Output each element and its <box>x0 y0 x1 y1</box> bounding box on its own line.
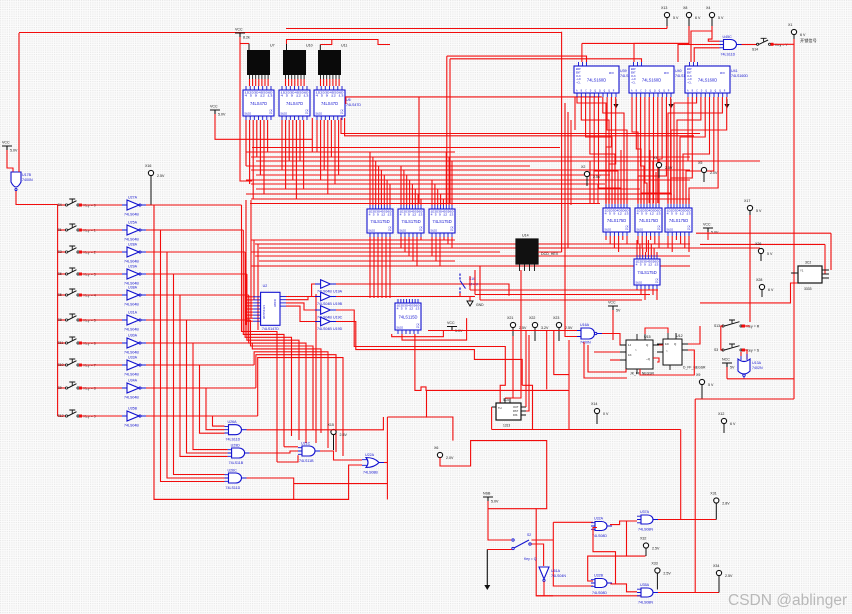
wire right bus y244 <box>700 243 825 245</box>
counter U41 pin labels <box>687 68 726 93</box>
wire bus to S10 <box>58 364 66 366</box>
svg-text:2.8V: 2.8V <box>722 502 730 506</box>
svg-text:U11: U11 <box>341 44 347 48</box>
svg-text:U28A: U28A <box>128 243 138 247</box>
wire U31 output vertical <box>648 289 650 290</box>
svg-text:U40: U40 <box>675 69 682 73</box>
svg-text:X34: X34 <box>713 564 719 568</box>
wire U13A in stub <box>740 352 742 356</box>
decoder U4 74LS47D <box>279 86 310 120</box>
probe X26 <box>755 242 773 261</box>
wire bus left vertical c <box>570 120 572 205</box>
svg-text:CK: CK <box>305 109 309 112</box>
wire bus B3 horizontal <box>255 243 690 245</box>
register U20 74LS175D <box>367 205 393 237</box>
wire display bracket step <box>320 40 332 45</box>
svg-text:U19A: U19A <box>333 289 343 293</box>
inverter U33A <box>122 356 146 377</box>
wire decoder output vertical <box>259 120 261 175</box>
wire U19B output <box>336 296 475 298</box>
svg-text:2.5V: 2.5V <box>593 175 601 179</box>
wire decoder output vertical <box>299 120 301 161</box>
svg-text:74LS11B: 74LS11B <box>229 461 244 465</box>
inverter U31A <box>122 311 146 332</box>
inverter U38A <box>122 286 146 307</box>
wire register Q to bus B3 <box>408 237 410 256</box>
svg-text:U26C: U26C <box>228 469 238 473</box>
power VCC right registers <box>703 223 719 235</box>
wire filler vertical b <box>593 170 595 203</box>
svg-text:4 5 9 12 13: 4 5 9 12 13 <box>369 214 393 217</box>
wire U15 Q to U12 D <box>659 344 663 346</box>
wire U10 top pin <box>286 44 288 50</box>
svg-text:U6: U6 <box>346 98 351 102</box>
probe X17 <box>744 199 762 215</box>
flip-flop U12 D_FF_NEGSR <box>657 333 706 370</box>
wire filler vertical c <box>597 184 599 203</box>
svg-text:CK: CK <box>388 226 392 229</box>
svg-text:X3: X3 <box>653 156 657 160</box>
svg-text:74LS147D: 74LS147D <box>262 327 279 331</box>
svg-text:5.0V: 5.0V <box>10 149 18 153</box>
wire U39 clock drop <box>581 43 583 62</box>
wire S3 to U13A <box>741 350 747 359</box>
svg-text:U35B: U35B <box>128 407 138 411</box>
wire S14 to X1 <box>771 43 794 45</box>
wire display bracket upper <box>287 40 391 45</box>
svg-text:S12: S12 <box>58 414 64 418</box>
svg-text:74LS175D: 74LS175D <box>637 270 656 275</box>
wire U26C output down <box>247 478 294 499</box>
wire register input vertical right <box>682 172 684 204</box>
svg-text:U14: U14 <box>522 234 529 238</box>
wire counter output jog to register <box>607 97 627 203</box>
svg-text:U19B: U19B <box>333 302 343 306</box>
wire bus B3 horizontal <box>251 251 500 253</box>
wire U7 pin 4 to decoder <box>258 79 260 86</box>
wire U12 ~Q feedback <box>640 350 694 375</box>
inverter U51A 74LS04N <box>539 567 566 582</box>
wire counter output jog to register <box>674 97 697 203</box>
wire S2 up-contact out <box>532 539 554 541</box>
wire register input vertical <box>409 180 411 205</box>
wire right register Q down <box>618 236 620 252</box>
svg-text:5&02: 5&02 <box>637 228 644 232</box>
wire lower loop to U22A in2 <box>154 465 362 499</box>
svg-text:5C5: 5C5 <box>503 398 509 402</box>
wire register input vertical <box>434 184 436 205</box>
wire S10 to U33A <box>80 364 123 366</box>
svg-text:U38A: U38A <box>128 286 138 290</box>
wire counter output jog to register <box>636 97 641 203</box>
svg-text:X21: X21 <box>507 316 513 320</box>
wire U11 pin 6 to decoder <box>335 79 337 86</box>
wire U31 input vertical <box>647 240 649 255</box>
wire bus to S8 <box>58 319 66 321</box>
wire bus B1 horizontal <box>256 188 640 190</box>
svg-text:X4: X4 <box>706 6 710 10</box>
wire right bus drop b <box>824 244 826 274</box>
wire enable line y56 <box>447 56 587 62</box>
wire 555 right pin riser a <box>525 330 527 407</box>
wire S3 to U28A <box>80 251 123 253</box>
register U25 74LS175D <box>665 204 692 236</box>
wire U17B input to top rail <box>18 33 20 172</box>
wire U10 pin 4 to decoder <box>294 79 296 86</box>
svg-text:S3: S3 <box>714 348 718 352</box>
ground arrow bottom <box>486 550 488 586</box>
switch S11 <box>58 337 96 346</box>
svg-text:5&02: 5&02 <box>316 112 323 116</box>
svg-text:S5: S5 <box>58 293 62 297</box>
svg-text:U12: U12 <box>676 334 683 338</box>
wire register Q to bus B3 <box>435 237 437 261</box>
wire U15 ~Q loop <box>653 358 659 362</box>
svg-text:5&02: 5&02 <box>667 228 674 232</box>
wire counter output jog to register <box>689 97 718 203</box>
wire U2 input stub <box>246 314 253 316</box>
switch S14 <box>757 38 789 47</box>
svg-text:74LS175D: 74LS175D <box>669 218 688 223</box>
wire DCD_HEX pin <box>529 264 531 271</box>
wire register input vertical <box>445 152 447 205</box>
gate U45C 74LS11D <box>720 35 742 57</box>
wire row 7 to riser <box>146 364 254 366</box>
wire right register Q down <box>680 236 682 244</box>
svg-text:74LS04B: 74LS04B <box>317 289 332 293</box>
wire register Q to 74LS115D <box>381 237 383 298</box>
svg-text:S3: S3 <box>58 250 62 254</box>
wire U7 pin 7 to decoder <box>267 79 269 86</box>
wire row 5 riser fan drop <box>251 320 314 430</box>
switch S13 <box>714 320 760 329</box>
svg-text:X31: X31 <box>710 492 716 496</box>
wire VCC to decoders <box>215 114 312 139</box>
wire X1 long vertical <box>793 45 795 400</box>
svg-text:3.2V: 3.2V <box>541 326 549 330</box>
wire row 7 riser fan drop <box>254 352 328 448</box>
wire bus left vertical a <box>564 103 566 248</box>
wire U7 pin 6 to decoder <box>264 79 266 86</box>
svg-text:CL: CL <box>450 229 454 232</box>
wire bus B1 extra a <box>252 147 560 149</box>
wire counter output jog to register <box>581 97 609 203</box>
wire register input vertical <box>386 180 388 205</box>
wire S13 right to X17 net <box>741 325 750 327</box>
wire decoder output vertical <box>292 120 294 180</box>
wire U11 pin 5 to decoder <box>332 79 334 86</box>
wire top rail <box>19 32 562 34</box>
wire U45C in2 <box>678 45 720 63</box>
wire register input vertical right <box>679 161 681 204</box>
wire row 5 to riser <box>146 319 251 321</box>
wire U22A output <box>384 462 387 464</box>
wire U15 clr <box>610 359 620 361</box>
wire U27A output down to gate cluster <box>146 205 349 499</box>
wire bus to S6 <box>58 273 66 275</box>
wire register input vertical right <box>676 150 678 204</box>
svg-text:74LS11B: 74LS11B <box>299 459 314 463</box>
wire counter output jog to register <box>577 97 606 203</box>
svg-text:X23: X23 <box>553 316 559 320</box>
wire bus B1 extra b <box>250 203 600 205</box>
inverter U30A <box>122 334 146 355</box>
svg-text:CSDN @ablinger: CSDN @ablinger <box>728 592 847 609</box>
wire decoder output vertical <box>327 120 329 194</box>
svg-text:CL: CL <box>269 112 273 115</box>
wire register input vertical right <box>637 161 639 204</box>
wire right register Q down <box>667 236 669 248</box>
svg-text:74LS08D: 74LS08D <box>592 591 607 595</box>
wire U29D output to U21C <box>250 451 298 453</box>
wire row 8 to riser <box>146 387 256 389</box>
svg-text:U33A: U33A <box>128 356 138 360</box>
wire 115 pin down y390 run with jog <box>415 334 569 390</box>
wire long vertical x419 <box>418 97 420 203</box>
register U21 74LS175D <box>398 205 424 237</box>
svg-text:987654321: 987654321 <box>262 305 266 319</box>
wire register input vertical right <box>646 194 648 204</box>
wire register input vertical <box>448 157 450 205</box>
wire decoder output vertical <box>338 120 340 175</box>
svg-text:4 5 9 12 13: 4 5 9 12 13 <box>316 95 345 98</box>
svg-text:74LS04B: 74LS04B <box>124 373 139 377</box>
wire S11 to U30A <box>80 342 123 344</box>
wire X17 down to S13 <box>749 215 751 322</box>
inverter U35B <box>122 407 146 428</box>
svg-text:5 V: 5 V <box>673 16 679 20</box>
wire counter output jog to register <box>609 97 616 203</box>
probe X2 <box>581 165 601 186</box>
probe X22 <box>529 316 549 341</box>
wire register Q to bus B3 <box>439 237 441 266</box>
wire register input vertical <box>440 194 442 205</box>
svg-text:5&02: 5&02 <box>369 229 376 233</box>
wire S2 lower link <box>487 549 512 551</box>
counter U40 top pins <box>634 62 642 66</box>
register U23 74LS175D <box>603 204 630 236</box>
wire U31 bus b <box>475 294 650 296</box>
wire counter output jog to register <box>638 97 666 203</box>
wire decoder output vertical <box>267 120 269 152</box>
gate U32A 74LS08D <box>591 517 612 539</box>
svg-text:7400N: 7400N <box>580 341 591 345</box>
wire register Q to 74LS115D <box>377 237 379 298</box>
wire U2 input stub <box>246 296 253 298</box>
switch S2 <box>512 533 537 561</box>
wire bus left vertical d <box>574 97 576 130</box>
svg-text:74LS04B: 74LS04B <box>124 328 139 332</box>
wire bus B1 horizontal <box>251 198 690 200</box>
svg-text:2.5V: 2.5V <box>652 547 660 551</box>
wire X8 to U40 clock <box>634 26 689 62</box>
inverter U19D 74LS04B <box>315 317 343 331</box>
svg-text:5 V: 5 V <box>756 209 762 213</box>
wire register input vertical <box>372 157 374 205</box>
svg-text:VCC: VCC <box>447 321 455 325</box>
wire U12 Q up to S13 net <box>688 326 700 344</box>
wire U34A output down to gate cluster <box>146 388 225 430</box>
svg-text:U29A: U29A <box>128 265 138 269</box>
wire counter output jog to register <box>603 97 624 203</box>
wire bus to S3 <box>58 251 66 253</box>
ground arrow below U39 <box>615 99 617 104</box>
svg-text:5 V: 5 V <box>767 252 773 256</box>
wire U31 output vertical <box>640 289 642 295</box>
svg-text:U37A: U37A <box>640 510 650 514</box>
wire register input vertical right <box>670 183 672 204</box>
wire right register Q down <box>645 236 647 252</box>
wire register input vertical <box>451 161 453 205</box>
display U14 DCD_HEX <box>516 239 538 264</box>
wire row 1 riser fan drop <box>243 230 284 447</box>
probe X21 <box>507 316 527 341</box>
wire decoder output vertical <box>252 120 254 199</box>
wire U31 bus c <box>480 299 642 301</box>
svg-text:4 5 9 12 13: 4 5 9 12 13 <box>637 213 662 216</box>
svg-text:4 5 9 12 13: 4 5 9 12 13 <box>431 214 455 217</box>
wire register input vertical right <box>611 172 613 204</box>
wire register input vertical right <box>652 161 654 204</box>
wire to 555 top b <box>510 270 521 398</box>
svg-text:VCC: VCC <box>210 105 218 109</box>
power VCC near 74LS115D <box>447 321 463 333</box>
wire bus B3 horizontal <box>251 239 455 241</box>
svg-text:S4: S4 <box>58 203 62 207</box>
wire counter output straight down <box>657 97 659 203</box>
wire x553 riser <box>552 522 554 540</box>
probe X16 <box>145 164 165 178</box>
wire U31 bus left riser b <box>474 270 476 295</box>
wire U11 pin 2 to decoder <box>323 79 325 86</box>
wire register input vertical <box>437 189 439 205</box>
wire bus B1 horizontal <box>251 169 690 171</box>
svg-text:CK: CK <box>657 225 661 228</box>
svg-text:U17B: U17B <box>22 173 32 177</box>
register U31 74LS175D <box>634 255 660 289</box>
svg-text:5V: 5V <box>616 309 621 313</box>
wire DCD_HEX input <box>538 251 562 253</box>
wire bus B3 horizontal <box>255 255 690 257</box>
wire register input vertical <box>417 194 419 205</box>
svg-text:4 5 9 12 13: 4 5 9 12 13 <box>397 308 421 311</box>
crystal IC2 3C2 <box>791 261 829 292</box>
svg-text:S6: S6 <box>58 272 62 276</box>
svg-text:3C2: 3C2 <box>805 261 811 265</box>
counter U40 74LS160D <box>629 66 674 97</box>
wire U11 pin 3 to decoder <box>326 79 328 86</box>
svg-text:74LS08N: 74LS08N <box>638 601 653 605</box>
wire decoder output vertical <box>323 120 325 170</box>
svg-text:X12: X12 <box>718 412 724 416</box>
svg-text:74LS175D: 74LS175D <box>401 219 420 224</box>
wire row 3 to riser <box>146 273 247 275</box>
wire bus B1 horizontal <box>246 193 672 195</box>
wire U32B out to U35A in1 <box>616 584 638 592</box>
wire U2 input stub <box>246 317 253 319</box>
svg-text:74LS08D: 74LS08D <box>592 534 607 538</box>
svg-text:5&02: 5&02 <box>431 229 438 233</box>
wire register input vertical <box>380 170 382 205</box>
wire decoder output vertical <box>320 120 322 180</box>
svg-text:0 V: 0 V <box>603 412 609 416</box>
svg-text:CL: CL <box>416 326 420 329</box>
svg-text:5&02: 5&02 <box>281 112 288 116</box>
svg-text:X26: X26 <box>755 242 761 246</box>
svg-text:2.5V: 2.5V <box>565 326 573 330</box>
svg-text:VCC: VCC <box>608 301 616 305</box>
wire VCC to U17B <box>7 150 13 173</box>
wire register input vertical right <box>649 150 651 204</box>
svg-text:CL: CL <box>655 281 659 284</box>
counter U41 top pins <box>690 62 698 66</box>
counter U39 74LS160D <box>574 66 619 97</box>
svg-text:U16A: U16A <box>580 323 590 327</box>
wire U2 out1 to U19A <box>286 284 315 297</box>
wire y43 run <box>582 42 689 44</box>
svg-text:RCO: RCO <box>609 72 614 75</box>
svg-text:5&02: 5&02 <box>400 229 407 233</box>
svg-text:5 V: 5 V <box>708 383 714 387</box>
svg-text:S1: S1 <box>58 228 62 232</box>
svg-text:X2: X2 <box>581 165 585 169</box>
svg-text:74LS04B: 74LS04B <box>124 396 139 400</box>
wire U37A output rail <box>658 519 716 521</box>
wire S4 to U27A <box>80 204 123 206</box>
wire register input vertical <box>369 152 371 205</box>
wire y399 rail <box>695 398 794 400</box>
inverter U28A <box>122 243 146 264</box>
wire register input vertical right <box>658 183 660 204</box>
svg-text:开锁信号: 开锁信号 <box>800 37 817 44</box>
wire U7 pin 3 to decoder <box>255 79 257 86</box>
svg-text:5.0V: 5.0V <box>491 500 499 504</box>
wire register Q to 74LS115D <box>369 237 371 298</box>
switch S1 <box>58 224 96 233</box>
svg-text:X22: X22 <box>529 316 535 320</box>
wire x546 upper segment <box>546 330 548 389</box>
wire row 0 riser fan drop <box>242 205 278 462</box>
wire bus B1 horizontal <box>251 156 690 158</box>
wire bus B1 horizontal <box>251 183 605 185</box>
wire counter output jog to register <box>671 97 692 203</box>
wire U35A output rail <box>658 592 719 594</box>
wire register input vertical right <box>626 172 628 204</box>
wire register Q to bus B3 <box>420 237 422 240</box>
wire U11 top pin <box>319 45 321 51</box>
svg-text:2.5V: 2.5V <box>340 433 348 437</box>
svg-text:Key = Q: Key = Q <box>524 557 537 561</box>
svg-text:74LS175D: 74LS175D <box>370 219 389 224</box>
wire NSB branch <box>488 508 536 510</box>
svg-text:4 5 9 12 13: 4 5 9 12 13 <box>667 213 692 216</box>
gate U26C <box>225 469 247 491</box>
wire chip pin loop up <box>402 318 467 340</box>
wire counter output straight down <box>648 97 650 203</box>
probe X4 <box>706 6 724 26</box>
wire register input vertical <box>400 166 402 205</box>
wire S8 to U31A <box>80 319 123 321</box>
wire x427 vertical <box>426 390 428 417</box>
svg-text:74LS11D: 74LS11D <box>226 486 241 490</box>
svg-text:74LS47D: 74LS47D <box>346 103 361 107</box>
wire counter output jog to register <box>645 97 647 203</box>
probe X23 <box>553 316 573 341</box>
wire row 9 to riser <box>146 415 258 417</box>
wire register input vertical right <box>640 172 642 204</box>
wire decoder output vertical <box>316 120 318 152</box>
svg-text:X28: X28 <box>756 278 762 282</box>
